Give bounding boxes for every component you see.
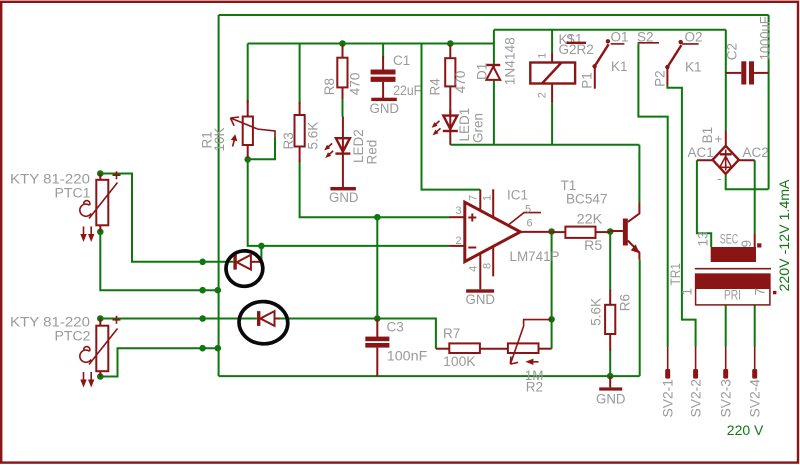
label LED2 Red xyxy=(351,129,380,164)
svg-text:5: 5 xyxy=(525,204,531,216)
svg-text:1N4148: 1N4148 xyxy=(503,37,518,85)
PTC2 temperature curl xyxy=(80,347,91,363)
label KTY 81-220 PTC2 xyxy=(10,315,91,344)
label K1 G2R2 xyxy=(559,32,594,57)
PTC2 arrows xyxy=(80,372,94,388)
wire Vcc to opamp pin7 xyxy=(422,44,481,190)
junction PTC1 top xyxy=(97,170,104,177)
svg-text:220V -12V 1.4mA: 220V -12V 1.4mA xyxy=(777,180,792,292)
wire B1 minus to right rail xyxy=(726,174,769,189)
junction R6 ground xyxy=(607,373,614,380)
wire P2 to SV2-2 xyxy=(667,85,695,347)
wire PTC2 top to node B xyxy=(100,318,257,320)
svg-text:O2: O2 xyxy=(685,30,703,45)
svg-text:2: 2 xyxy=(456,235,462,247)
diode in circle node B xyxy=(257,311,280,326)
contact K1 switch 2 xyxy=(638,40,699,85)
svg-text:3: 3 xyxy=(456,205,462,217)
connector pin SV2-4 xyxy=(752,347,757,379)
wire D1 column xyxy=(493,30,495,145)
potentiometer R1 xyxy=(231,100,276,159)
svg-text:B1: B1 xyxy=(700,127,715,144)
transistor T1 xyxy=(610,203,639,260)
svg-text:8: 8 xyxy=(482,263,494,269)
wire node B to C3 and R7 xyxy=(280,319,436,349)
wire AC2 to SEC pin9 xyxy=(754,160,756,233)
svg-text:+: + xyxy=(715,132,723,147)
resistor R6 xyxy=(605,290,615,351)
svg-text:C3: C3 xyxy=(387,320,404,335)
junction PTC2 ground xyxy=(199,345,206,352)
wire diode anode riser xyxy=(260,246,262,262)
wire R3 to opamp pin3 xyxy=(300,161,450,217)
diode in circle node A xyxy=(233,255,261,270)
svg-text:R4: R4 xyxy=(428,78,443,96)
label 1M R2 xyxy=(525,368,544,395)
svg-text:1: 1 xyxy=(482,195,494,201)
svg-text:K1: K1 xyxy=(685,60,702,75)
svg-text:R5: R5 xyxy=(584,238,602,253)
wire +12V drop to B1 plus xyxy=(725,30,727,131)
resistor R3 xyxy=(295,102,305,162)
label PRI 1 7 xyxy=(680,288,768,303)
label 22K R5 xyxy=(577,211,603,253)
svg-text:220 V: 220 V xyxy=(727,423,764,438)
svg-text:22K: 22K xyxy=(577,211,603,226)
junction at R1 wiper xyxy=(244,156,251,163)
svg-text:Red: Red xyxy=(365,140,380,165)
wire top ground rail xyxy=(219,14,769,16)
svg-text:P2: P2 xyxy=(653,70,668,87)
svg-text:C2: C2 xyxy=(725,43,740,60)
svg-text:R8: R8 xyxy=(322,78,337,95)
svg-text:Gren: Gren xyxy=(471,113,486,143)
label D1 1N4148 xyxy=(475,37,518,85)
junction opamp output xyxy=(548,228,555,235)
svg-text:GND: GND xyxy=(370,101,400,116)
svg-text:SV2-1: SV2-1 xyxy=(661,379,676,418)
diode D1 xyxy=(486,65,500,80)
junction ground rail E xyxy=(215,345,222,352)
svg-text:6: 6 xyxy=(527,218,533,230)
svg-text:TR1: TR1 xyxy=(668,263,683,286)
wire right ground vertical xyxy=(768,15,770,189)
wire relay pin2 to LED rail xyxy=(551,101,553,145)
svg-text:AC2: AC2 xyxy=(743,145,769,160)
sensor PTC2 xyxy=(89,319,118,377)
label TR1 xyxy=(668,263,683,286)
resistor R4 xyxy=(445,45,455,115)
opamp IC1 xyxy=(450,189,552,289)
label B1 AC1 AC2 plus minus xyxy=(688,127,769,186)
svg-text:KTY 81-220: KTY 81-220 xyxy=(10,315,90,330)
svg-text:13: 13 xyxy=(696,231,711,246)
LED1 xyxy=(443,110,458,145)
wire R3 top riser xyxy=(299,44,301,105)
junction PTC2 top xyxy=(97,315,104,322)
bridge rectifier B1 xyxy=(697,131,755,174)
wire PTC1 top to node A xyxy=(100,174,233,262)
wire R8 to LED2 segment xyxy=(342,97,344,117)
transformer TR1 secondary xyxy=(711,233,762,262)
label SV2-2 xyxy=(689,379,704,418)
PTC2 plus mark xyxy=(113,316,121,324)
svg-text:G2R2: G2R2 xyxy=(559,42,594,57)
svg-text:AC1: AC1 xyxy=(688,145,714,160)
label LED1 Gren xyxy=(457,108,486,143)
label T1 BC547 xyxy=(561,178,608,206)
label SV2-3 xyxy=(719,379,734,418)
svg-text:10K: 10K xyxy=(212,127,227,151)
svg-text:GND: GND xyxy=(596,392,626,407)
wire LED cathode rail xyxy=(450,144,639,146)
connector pin SV2-3 xyxy=(723,347,728,379)
wire bottom ground rail xyxy=(219,375,640,377)
wire PRI pin to SV2-3 xyxy=(725,305,727,347)
label C1 22uF xyxy=(393,53,421,98)
junction at R4 top xyxy=(447,40,454,47)
label R3 5.6K xyxy=(281,122,321,150)
svg-text:D1: D1 xyxy=(475,63,490,80)
wire S2 to SV2-1 xyxy=(638,44,667,347)
label C3 100nF xyxy=(387,320,428,364)
svg-text:22uF: 22uF xyxy=(393,83,421,98)
svg-text:PRI: PRI xyxy=(724,288,741,303)
LED2 xyxy=(335,117,350,188)
label R8 470 xyxy=(322,73,363,96)
svg-text:4: 4 xyxy=(468,266,480,272)
label 220 V xyxy=(727,423,764,438)
PTC1 plus mark xyxy=(113,171,121,179)
junction C3 node xyxy=(374,315,381,322)
wire left ground vertical xyxy=(218,15,220,376)
wire PRI pin to SV2-4 xyxy=(754,305,756,347)
svg-text:R3: R3 xyxy=(281,132,296,149)
svg-text:KTY 81-220: KTY 81-220 xyxy=(10,172,90,187)
svg-text:100nF: 100nF xyxy=(387,349,428,364)
junction R2 wiper xyxy=(548,316,555,323)
wire C1 top stub xyxy=(382,44,384,59)
capacitor C3 xyxy=(365,319,389,377)
wire C3 drop xyxy=(376,217,378,318)
svg-text:BC547: BC547 xyxy=(566,191,608,206)
svg-text:IC1: IC1 xyxy=(507,188,528,203)
svg-text:P1: P1 xyxy=(580,72,595,89)
label R1 10K xyxy=(200,127,228,151)
junction PTC2 bottom xyxy=(97,373,104,380)
label SV2-1 xyxy=(661,379,676,418)
label SEC 13 9 xyxy=(696,231,755,247)
svg-text:470: 470 xyxy=(348,73,363,96)
label IC1 LM741P xyxy=(507,188,560,265)
wire PTC2 bottom to ground xyxy=(100,348,218,376)
svg-text:GND: GND xyxy=(466,292,496,307)
connector pin SV2-2 xyxy=(693,347,698,379)
relay coil K1 xyxy=(530,52,575,102)
resistor R5 xyxy=(552,227,611,238)
svg-text:R2: R2 xyxy=(526,380,543,395)
svg-text:7: 7 xyxy=(753,288,768,296)
PTC1 arrows xyxy=(80,227,94,243)
svg-text:SEC: SEC xyxy=(720,232,739,247)
wire emitter riser xyxy=(639,260,641,376)
svg-text:PTC1: PTC1 xyxy=(55,186,91,201)
capacitor C2 xyxy=(726,61,769,84)
label S2 O2 P2 K1 xyxy=(637,30,703,87)
junction node B left xyxy=(199,315,206,322)
junction ground rail B xyxy=(215,287,222,294)
svg-text:SV2-2: SV2-2 xyxy=(689,379,704,418)
svg-text:GND: GND xyxy=(329,190,359,205)
label SV2-4 xyxy=(748,379,763,418)
relay pin labels 1 2 xyxy=(537,53,549,99)
svg-text:SV2-4: SV2-4 xyxy=(748,379,763,418)
PTC1 temperature curl xyxy=(80,201,91,217)
transformer core line xyxy=(695,268,771,270)
svg-text:1: 1 xyxy=(680,288,695,296)
svg-text:470: 470 xyxy=(453,71,468,94)
ground below LED2 xyxy=(329,187,359,205)
svg-text:O1: O1 xyxy=(611,30,629,45)
wire relay pin1 stub xyxy=(551,30,553,53)
hand-drawn circle 2 xyxy=(238,300,290,346)
ground below C1 xyxy=(370,98,400,116)
label O1 P1 K1 xyxy=(580,30,629,89)
junction C3 top xyxy=(374,214,381,221)
svg-text:9: 9 xyxy=(739,240,754,248)
svg-text:LM741P: LM741P xyxy=(510,249,560,264)
connector pin SV2-1 xyxy=(665,347,670,379)
label R7 100K xyxy=(443,326,476,369)
label C2 1000uF xyxy=(725,16,773,60)
wire PTC1 bottom to ground xyxy=(100,232,218,290)
junction at R8 top xyxy=(339,40,346,47)
label 220V -12V 1.4mA xyxy=(777,180,792,292)
resistor R7 xyxy=(436,343,508,353)
junction node A left xyxy=(199,259,206,266)
LED2 arrows xyxy=(324,143,333,158)
junction diode riser xyxy=(258,243,265,250)
opamp pin numbers xyxy=(456,195,533,272)
svg-text:PTC2: PTC2 xyxy=(55,329,91,344)
label R4 470 xyxy=(428,71,469,96)
svg-text:SV2-3: SV2-3 xyxy=(719,379,734,418)
svg-text:-: - xyxy=(717,171,722,186)
svg-text:R7: R7 xyxy=(443,326,460,341)
wire collector riser xyxy=(638,145,640,203)
capacitor C1 xyxy=(371,56,396,98)
potentiometer R2 xyxy=(508,320,552,365)
svg-text:5.6K: 5.6K xyxy=(589,298,604,326)
svg-text:7: 7 xyxy=(468,195,480,201)
label KTY 81-220 PTC1 xyxy=(10,172,91,201)
svg-text:1000uF: 1000uF xyxy=(758,16,773,60)
wire R6 column xyxy=(609,232,611,377)
svg-text:S2: S2 xyxy=(637,30,654,45)
junction PTC1 bottom xyxy=(97,229,104,236)
LED1 arrows xyxy=(432,121,441,136)
ground below R6 xyxy=(596,376,626,406)
wire opamp output column xyxy=(551,232,553,349)
svg-text:100K: 100K xyxy=(443,354,476,369)
svg-text:1: 1 xyxy=(537,53,549,59)
sensor PTC1 xyxy=(89,174,118,232)
wire AC1 to SEC pin13 xyxy=(697,160,711,247)
junction R5 right xyxy=(607,228,614,235)
contact S1 stub xyxy=(567,42,587,44)
label 5.6K R6 xyxy=(589,294,633,326)
wire +12V rail xyxy=(494,29,726,31)
svg-text:K1: K1 xyxy=(611,59,628,74)
contact K1 switch 1 xyxy=(592,39,624,89)
svg-text:C1: C1 xyxy=(393,53,410,68)
ground below opamp xyxy=(466,289,496,307)
transformer TR1 primary xyxy=(695,274,776,305)
svg-text:R6: R6 xyxy=(618,294,633,311)
wire R1 to opamp pin2 xyxy=(248,161,450,246)
wire R1 top riser xyxy=(247,44,249,104)
junction PTC1 ground xyxy=(199,287,206,294)
svg-text:2: 2 xyxy=(537,92,549,98)
svg-text:5.6K: 5.6K xyxy=(306,122,321,150)
resistor R8 xyxy=(337,45,347,99)
hand-drawn circle 1 xyxy=(225,249,265,287)
wire Vcc rail xyxy=(248,43,494,45)
